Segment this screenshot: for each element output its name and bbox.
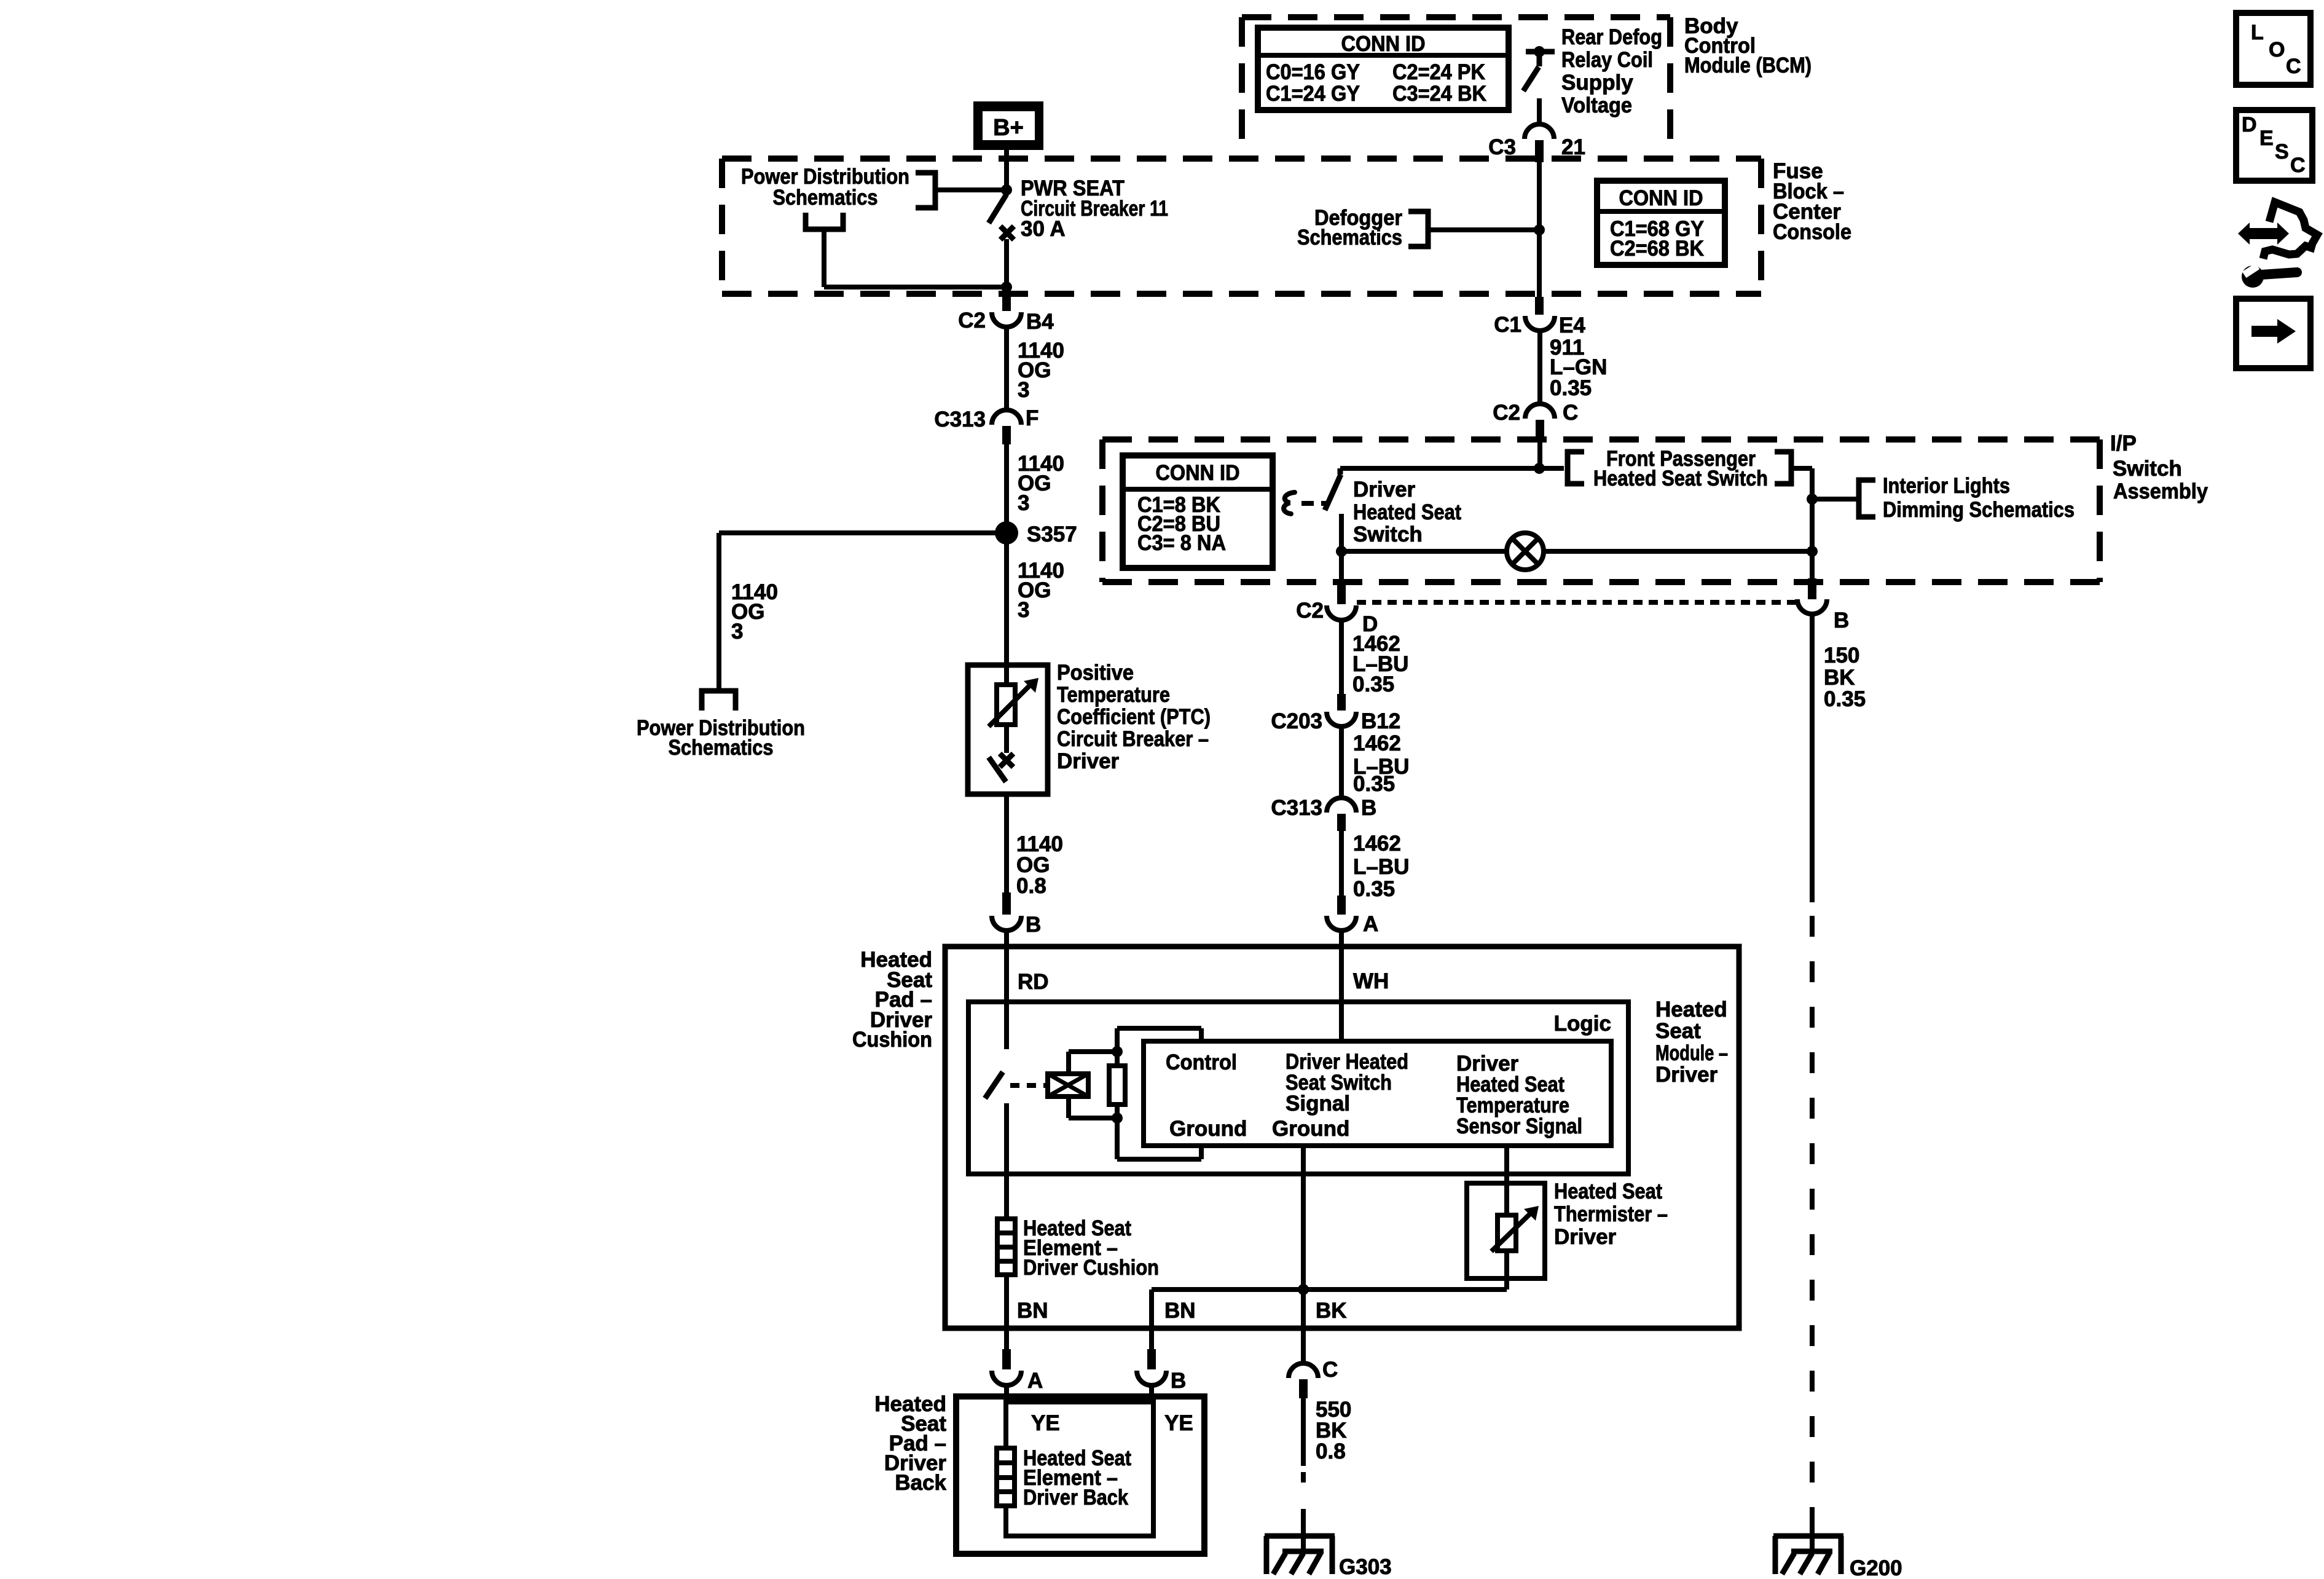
connector C2 pin B4 [958,294,1054,334]
svg-text:0.35: 0.35 [1353,772,1395,796]
connector C203 pin B12 [1271,694,1400,733]
svg-text:B: B [1361,796,1376,820]
svg-text:Ground: Ground [1169,1117,1247,1141]
wire S357 to PTC breaker [1004,533,1009,685]
svg-text:C2: C2 [1296,599,1324,623]
svg-text:YE: YE [1164,1411,1193,1435]
svg-text:BK: BK [1824,666,1855,690]
wire C313/F to splice S357 [1004,444,1009,533]
svg-text:B: B [1834,608,1849,632]
svg-text:E: E [2259,127,2274,150]
svg-text:CONN ID: CONN ID [1156,461,1240,485]
PTC variable resistor [989,678,1038,726]
thermistor symbol [1491,1206,1539,1251]
svg-text:C2: C2 [1493,401,1520,425]
svg-text:C1: C1 [1494,313,1521,337]
svg-text:BK: BK [1316,1299,1347,1323]
icon LOC box [2236,13,2310,85]
svg-text:Driver Cushion: Driver Cushion [1023,1256,1159,1280]
wire element to BN [1004,1275,1009,1349]
label I/P Switch Assembly [2110,431,2208,503]
wire front passenger switch to interior lights column [1791,468,1812,578]
svg-text:Switch: Switch [2113,457,2182,481]
svg-text:I/P: I/P [2110,431,2137,455]
svg-text:0.35: 0.35 [1352,672,1394,696]
pin labels: Control / Ground [1166,1050,1247,1141]
svg-text:CONN ID: CONN ID [1341,32,1426,56]
svg-text:30 A: 30 A [1021,217,1066,241]
module relay contact blade [985,1072,1003,1098]
wire control pin [1117,1028,1201,1052]
heated seat element - driver cushion [997,1219,1015,1275]
circuit breaker CB11 blade [989,194,1007,223]
svg-text:Schematics: Schematics [669,736,774,760]
I/P CONN ID table [1123,455,1273,568]
label Driver Heated Seat Switch [1353,478,1461,546]
label Logic [1554,1012,1611,1036]
svg-text:A: A [1363,912,1378,936]
wire label 1140 OG 3 (3) [1018,559,1064,622]
pin label: Ground (switch) [1272,1117,1349,1141]
off-page reference Interior Lights Dimming Schematics [1812,474,2075,522]
connector B (driver back element) [1137,1349,1186,1393]
svg-text:B+: B+ [993,115,1024,141]
svg-text:Supply: Supply [1561,71,1633,95]
wire label 1462 L-BU 0.35 (2) [1353,731,1409,796]
wire S357 branch to power distribution [719,533,1007,691]
icon wrench [2242,263,2297,288]
svg-text:S357: S357 [1027,522,1077,546]
label Power Distribution Schematics (bottom) [637,716,805,760]
svg-text:F: F [1026,406,1038,430]
labels BN BN BK [1017,1299,1347,1323]
I/P Switch Assembly dashed box [1102,439,2100,582]
svg-text:Switch: Switch [1353,522,1423,546]
svg-text:3: 3 [1018,491,1029,515]
svg-text:G303: G303 [1339,1555,1392,1579]
heated seat element - driver back [997,1448,1015,1506]
wire B4 to C313 [1004,326,1009,410]
svg-text:0.35: 0.35 [1550,376,1592,400]
node: defogger tap [1534,224,1545,235]
icon DESC box [2236,110,2312,181]
svg-text:C313: C313 [1271,796,1322,820]
svg-text:Thermister –: Thermister – [1554,1202,1668,1226]
wire label 1140 OG 3 (1) [1018,339,1064,402]
svg-text:BN: BN [1017,1299,1048,1323]
svg-text:D: D [2242,113,2257,136]
wire module switch to element [1004,1103,1009,1219]
node: resistor bottom [1112,1112,1123,1124]
connector B (I/P to body) [1797,578,1849,632]
wire A into pad [1004,1385,1009,1402]
wire B into pad [1149,1385,1154,1402]
wire thermistor to ground bus [1152,1290,1507,1349]
svg-text:0.8: 0.8 [1316,1439,1346,1463]
splice S357 [995,521,1077,546]
power symbol B+ [973,101,1043,150]
label Heated Seat Thermister - Driver [1554,1179,1668,1249]
driver heated seat switch blade [1325,468,1341,510]
svg-text:Coefficient (PTC): Coefficient (PTC) [1057,705,1211,729]
label Heated Seat Module - Driver [1655,998,1728,1087]
svg-text:Temperature: Temperature [1057,683,1170,707]
node: lamp line right junction [1807,546,1818,557]
connector C2 pin C [1493,401,1578,436]
svg-text:0.35: 0.35 [1353,877,1395,901]
svg-text:C: C [1322,1358,1338,1382]
wire label 150 BK 0.35 [1824,644,1866,711]
wire RD into module [1004,929,1009,1049]
Body Control Module (BCM) dashed box [1242,17,1670,159]
svg-text:0.35: 0.35 [1824,687,1866,711]
svg-text:C3= 8 NA: C3= 8 NA [1137,531,1226,555]
svg-text:Rear Defog: Rear Defog [1561,25,1662,49]
rear defog relay contact [1523,46,1555,91]
label Rear Defog Relay Coil Supply Voltage [1561,25,1662,117]
Heated Seat Module - Driver box [945,947,1739,1328]
wire label 1140 OG 3 (2) [1018,452,1064,515]
svg-text:Driver: Driver [1655,1063,1718,1087]
svg-text:Voltage: Voltage [1561,93,1632,117]
fuse block CONN ID table [1597,181,1725,265]
wire ground pin loop [1117,1118,1201,1159]
svg-text:C: C [2290,154,2306,177]
svg-text:O: O [2269,38,2285,61]
indicator lamp [1341,533,1812,570]
off-page reference label Power Distribution Schematics (top) [741,165,909,210]
relay mechanical link dashes [1010,1083,1048,1088]
wire label 1462 L-BU 0.35 (1) [1352,632,1408,696]
node: ground bus junction [1298,1284,1309,1295]
svg-text:L: L [2251,21,2264,44]
label PWR SEAT Circuit Breaker 11 30 A [1021,176,1168,241]
svg-text:BN: BN [1164,1299,1196,1323]
svg-text:C2: C2 [958,309,986,333]
module resistor [1109,1052,1125,1118]
svg-text:Module –: Module – [1655,1041,1728,1065]
svg-text:Interior Lights: Interior Lights [1883,474,2010,498]
connector B (module RD input) [992,892,1041,937]
svg-text:Schematics: Schematics [1297,226,1402,250]
wire C313 to module connector A [1339,831,1344,896]
PTC circuit breaker box [968,665,1048,794]
wire: switch output to lamp line [1339,514,1344,582]
label Heated Seat Pad - Driver Back [874,1392,946,1495]
connector C3 pin 21 [1488,124,1585,162]
svg-text:21: 21 [1561,135,1585,159]
svg-text:Positive: Positive [1057,661,1134,685]
wire PTC to module connector B [1004,794,1009,892]
svg-text:A: A [1027,1369,1043,1393]
svg-text:Logic: Logic [1554,1012,1611,1036]
Heated Seat Pad - Driver Back box [956,1396,1204,1554]
svg-text:RD: RD [1018,970,1049,994]
wire: switch feed horizontal [1340,466,1564,471]
wire bracket to breaker input junction [935,187,1007,192]
wire label 1462 L-BU 0.35 (3) [1353,832,1409,901]
label Positive Temperature Coefficient (PTC) Circuit Breaker - Driver [1057,661,1211,773]
connector C2 pin D [1296,582,1378,636]
wire sensor signal to thermistor [1504,1146,1509,1290]
svg-text:Module (BCM): Module (BCM) [1684,53,1812,77]
svg-text:WH: WH [1353,969,1389,993]
node: lamp line left junction [1336,546,1347,557]
svg-text:Heated: Heated [1655,998,1727,1022]
label WH [1353,969,1389,993]
label RD [1018,970,1049,994]
Fuse Block - Center Console dashed box [722,159,1761,294]
svg-text:Heated Seat Switch: Heated Seat Switch [1593,467,1768,490]
label Body Control Module (BCM) [1684,14,1812,77]
wire defogger tap to fuse output [1537,230,1542,297]
svg-text:Signal: Signal [1286,1092,1350,1116]
svg-text:C203: C203 [1271,709,1322,733]
svg-text:0.8: 0.8 [1016,874,1046,898]
off-page reference Defogger Schematics [1297,206,1539,250]
icon navigation double arrow [2238,222,2289,245]
wire C203 to C313 [1339,725,1344,798]
svg-text:C313: C313 [934,408,986,431]
connector boundary dotted line [1357,600,1797,605]
label G303 [1339,1555,1392,1579]
wire label 1140 OG 0.8 [1016,832,1063,898]
wire relay to connector C3 [1537,98,1542,125]
ground G303 [1265,1536,1335,1574]
svg-text:3: 3 [731,620,743,644]
svg-text:Driver: Driver [1353,478,1416,502]
svg-text:Control: Control [1166,1050,1237,1074]
wire C to G303 [1301,1398,1306,1551]
label Heated Seat Pad - Driver Cushion [852,948,932,1052]
node: resistor top [1112,1046,1123,1057]
svg-text:C0=16 GY: C0=16 GY [1266,60,1360,84]
svg-text:CONN ID: CONN ID [1619,186,1703,210]
BCM CONN ID table [1258,28,1509,110]
svg-text:Dimming Schematics: Dimming Schematics [1883,498,2075,522]
wire junction to lower off-page bracket [824,229,1007,287]
ground G200 [1773,1536,1843,1574]
node: breaker input junction [1001,184,1012,195]
svg-text:B: B [1026,913,1041,937]
off-page reference bracket (below, to Power Distribution Schematics) [806,213,843,229]
svg-text:Back: Back [895,1471,946,1495]
svg-text:1462: 1462 [1353,832,1401,856]
connector A (driver cushion element) [992,1349,1043,1393]
svg-text:Assembly: Assembly [2113,479,2208,503]
labels YE YE [1031,1411,1193,1435]
pin label: Driver Heated Seat Switch Signal [1286,1050,1408,1116]
connector C313 pin B [1271,796,1376,831]
svg-text:E4: E4 [1559,313,1585,337]
svg-text:B12: B12 [1361,709,1400,733]
node: interior lights tap [1807,494,1818,505]
svg-text:C2=24 PK: C2=24 PK [1392,60,1485,84]
connector C1 pin E4 [1494,297,1585,337]
node: breaker output junction [1001,282,1012,293]
svg-text:C3: C3 [1488,135,1516,159]
svg-text:B: B [1171,1369,1186,1393]
svg-text:150: 150 [1824,644,1859,667]
svg-text:C2=68 BK: C2=68 BK [1610,237,1704,261]
svg-text:Cushion: Cushion [852,1028,932,1052]
svg-text:C3=24 BK: C3=24 BK [1392,82,1486,106]
svg-text:C: C [2286,55,2301,78]
logic pin box [1144,1041,1611,1146]
wire ground pin to splice line [1301,1146,1306,1328]
svg-text:Circuit Breaker –: Circuit Breaker – [1057,727,1209,751]
PTC breaker contact [989,725,1013,782]
Logic box [968,1002,1628,1174]
svg-text:Seat: Seat [1655,1019,1701,1043]
connector C313 pin F [934,406,1038,444]
node: switch feed junction [1534,463,1545,474]
wire B connector to G200 (dashed) [1810,614,1815,1551]
wire WH into module [1339,929,1344,1041]
wire B+ to breaker input [1004,150,1009,194]
label Heated Seat Element - Driver Cushion [1023,1216,1159,1280]
wire C2/D to C203 [1339,619,1344,694]
svg-text:B4: B4 [1026,310,1054,334]
svg-text:Driver Back: Driver Back [1023,1486,1128,1510]
wire label 911 L-GN 0.35 [1550,336,1607,400]
off-page reference bracket (right of Power Distribution Schematics) [916,173,935,208]
element loop driver back [1006,1402,1153,1536]
switch detent symbol [1284,492,1328,514]
wire label 1140 OG 3 (branch) [731,580,778,644]
svg-text:L–BU: L–BU [1353,855,1409,879]
off-page reference bracket (Power Distribution below) [702,691,736,711]
wire breaker output to junction [1004,239,1009,287]
off-page reference Front Passenger Heated Seat Switch [1568,447,1791,490]
svg-text:Heated Seat: Heated Seat [1353,500,1461,524]
label Fuse Block - Center Console [1773,159,1851,244]
svg-text:Ground: Ground [1272,1117,1349,1141]
svg-text:3: 3 [1018,598,1029,622]
icon vehicle outline [2263,202,2317,259]
relay coil branch [1069,1052,1117,1118]
svg-text:S: S [2275,140,2289,163]
svg-text:C: C [1563,401,1578,425]
heated seat thermistor box [1467,1183,1545,1278]
svg-text:G200: G200 [1850,1556,1902,1579]
relay coil [1048,1074,1088,1097]
svg-text:Console: Console [1773,220,1851,244]
pin label: Driver Heated Seat Temperature Sensor Signal [1456,1052,1582,1138]
label Heated Seat Element - Driver Back [1023,1446,1131,1510]
svg-text:1462: 1462 [1353,731,1401,755]
connector C (module ground) [1289,1328,1338,1398]
svg-text:Heated Seat: Heated Seat [1554,1179,1662,1203]
svg-text:YE: YE [1031,1411,1060,1435]
svg-text:C1=24 GY: C1=24 GY [1266,82,1360,106]
icon next arrow box [2236,299,2310,368]
svg-text:Schematics: Schematics [773,186,878,210]
svg-text:Driver: Driver [1057,749,1120,773]
wire C3 to defogger tap [1537,162,1542,230]
wire C2/C into I/P switch [1537,436,1542,468]
wire label 550 BK 0.8 [1316,1398,1351,1463]
wire E4 to I/P switch assembly [1537,331,1542,404]
svg-text:Sensor Signal: Sensor Signal [1456,1114,1582,1138]
svg-text:Relay Coil: Relay Coil [1561,48,1653,72]
label G200 [1850,1556,1902,1579]
circuit breaker CB11 trip cross [1000,226,1014,240]
svg-text:Driver: Driver [1554,1225,1617,1249]
svg-text:3: 3 [1018,378,1029,402]
connector A (module WH input) [1327,896,1378,936]
